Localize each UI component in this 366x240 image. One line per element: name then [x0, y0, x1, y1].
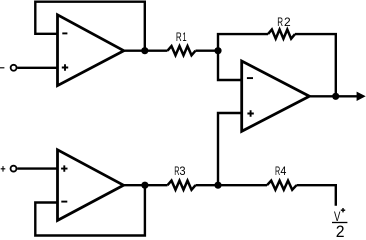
op-amp U2: [242, 61, 310, 131]
input terminal circle (non-inverting input): [11, 166, 17, 172]
wire U2 output: [309, 95, 357, 97]
U1 minus pin label: [62, 32, 67, 34]
svg-text:R: R: [176, 30, 182, 44]
wire terminal to U1 + input: [17, 67, 57, 69]
wire R2 to output node: [295, 34, 336, 96]
input terminal plus sign: [1, 166, 6, 172]
node R3/R4/U2 non-inverting junction: [214, 182, 221, 189]
wire node to U2 inverting input: [218, 51, 242, 80]
resistor R4: [267, 181, 297, 190]
wire U1 feedback loop: [35, 2, 145, 51]
wire R1 to node: [196, 50, 219, 52]
net label V+/2: [332, 208, 347, 240]
wire node to U2 non-inverting input: [218, 113, 242, 185]
node U3 output junction: [141, 182, 148, 189]
resistor R1: [168, 46, 196, 55]
svg-text:2: 2: [336, 223, 345, 239]
input terminal minus sign: [0, 67, 4, 69]
wire terminal to U3 + input: [17, 167, 57, 169]
U3 plus pin label: [61, 165, 67, 171]
op-amp U1: [58, 15, 124, 86]
wire U3 output: [124, 184, 168, 186]
svg-text:4: 4: [280, 166, 287, 178]
svg-text:3: 3: [179, 166, 185, 178]
svg-text:R: R: [277, 15, 283, 29]
wire R2 branch up: [218, 34, 268, 51]
wire U1 output: [124, 50, 168, 52]
U2 minus pin label: [247, 77, 253, 79]
U1 plus pin label: [62, 64, 68, 70]
wire R3 to node: [196, 184, 219, 186]
resistor R2: [268, 30, 295, 39]
U3 minus pin label: [61, 201, 67, 203]
svg-text:1: 1: [182, 30, 187, 44]
wire U3 feedback loop: [35, 185, 145, 235]
wire node to R4: [218, 184, 267, 186]
svg-text:V: V: [334, 208, 341, 224]
svg-text:2: 2: [284, 15, 291, 29]
node R1/R2/U2 inverting junction: [214, 47, 221, 54]
U2 plus pin label: [247, 110, 253, 116]
input terminal circle (inverting input): [11, 65, 17, 71]
wire R4 to V+/2: [297, 185, 336, 206]
resistor R3: [168, 181, 196, 190]
op-amp U3: [58, 150, 124, 221]
node U1 output junction: [141, 47, 148, 54]
node U2 output junction: [332, 93, 339, 100]
output arrowhead: [357, 92, 366, 101]
